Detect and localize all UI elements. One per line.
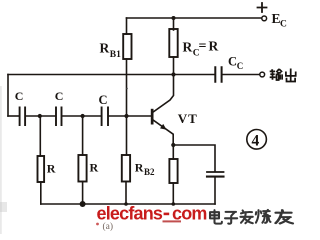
svg-text:R: R: [209, 39, 219, 54]
svg-text:C: C: [99, 93, 108, 107]
svg-text:elecfans: elecfans: [97, 204, 163, 224]
svg-text:R: R: [183, 40, 193, 55]
svg-text:C: C: [55, 89, 64, 103]
svg-text:(a): (a): [103, 221, 114, 232]
svg-text:R: R: [135, 161, 144, 175]
svg-text:VT: VT: [178, 111, 198, 126]
svg-text:4: 4: [252, 133, 260, 150]
svg-text:B2: B2: [144, 167, 155, 177]
svg-text:B1: B1: [110, 50, 121, 60]
svg-text:C: C: [280, 20, 287, 30]
svg-text:C: C: [15, 89, 24, 103]
svg-text:=: =: [199, 39, 207, 54]
svg-text:R: R: [100, 41, 110, 56]
svg-text:R: R: [47, 162, 56, 176]
svg-text:C: C: [237, 61, 244, 71]
svg-text:R: R: [90, 161, 99, 175]
svg-text:C: C: [228, 55, 237, 69]
